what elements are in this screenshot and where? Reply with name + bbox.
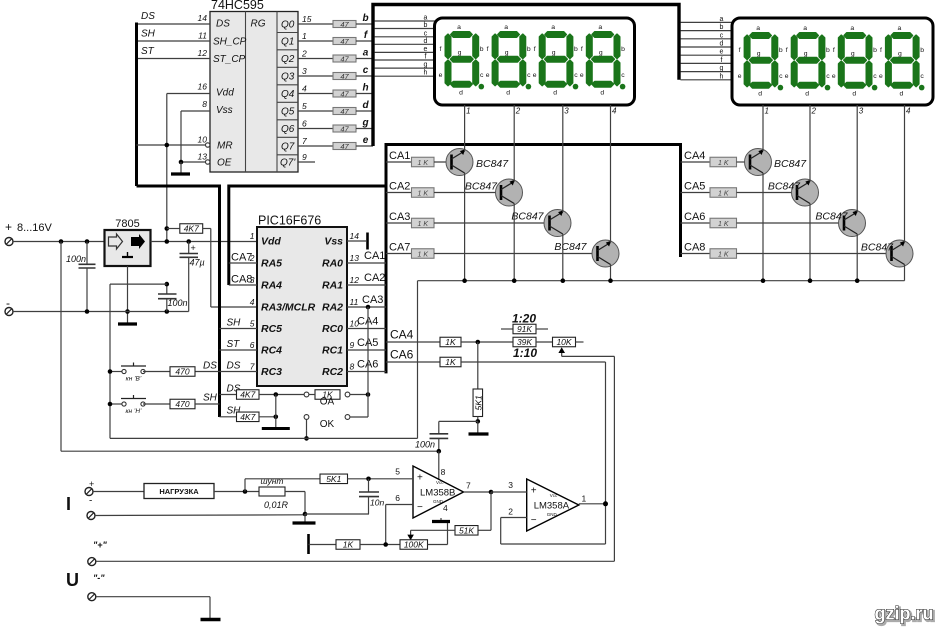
wire Q4 emitter down — [610, 265, 612, 281]
resistor R CA6 1K — [710, 218, 737, 228]
wire 4K7SH out — [259, 416, 276, 418]
label U — [66, 570, 79, 590]
svg-text:a: a — [504, 24, 508, 31]
wire DS to U2 pin7 — [195, 371, 257, 373]
wire U1 MR — [137, 144, 206, 146]
svg-text:b: b — [480, 46, 484, 53]
U2 left pin numbers — [249, 231, 255, 372]
wire U- to ground — [96, 597, 210, 618]
svg-text:1 K: 1 K — [718, 252, 729, 259]
net label DS 4K7 row — [227, 384, 241, 395]
svg-text:CA1: CA1 — [364, 250, 385, 262]
wire bus to RCA3 — [386, 222, 412, 224]
svg-text:LM358A: LM358A — [534, 501, 570, 512]
svg-text:5: 5 — [395, 467, 400, 477]
jumper OK left contact — [304, 415, 309, 420]
net label CA2 pin12 — [364, 272, 385, 284]
svg-text:d: d — [506, 90, 510, 97]
svg-text:ST: ST — [227, 339, 241, 350]
label Q2 BC847 — [465, 181, 498, 193]
wire I- to 10n — [305, 513, 369, 515]
svg-text:c: c — [621, 72, 625, 79]
wire display2 pin3 to Q7 collector — [856, 105, 858, 212]
transistor Q3 BC847 — [544, 210, 571, 237]
svg-text:2: 2 — [301, 49, 307, 59]
IC U2 title — [258, 214, 321, 228]
op-amp U4A LM358A — [527, 479, 579, 531]
IC U1 74HC595 body — [210, 12, 298, 173]
IC VR1 7805 body — [105, 230, 151, 266]
svg-text:d: d — [600, 90, 604, 97]
svg-text:g: g — [552, 50, 556, 57]
svg-text:100K: 100K — [404, 540, 424, 550]
resistor R CA8 1K — [710, 249, 737, 259]
svg-text:2: 2 — [508, 507, 513, 517]
U2 pin14 Vss stub — [347, 240, 366, 242]
svg-text:d: d — [362, 100, 369, 111]
wire bus to RCA1 — [386, 161, 412, 163]
svg-text:1:10: 1:10 — [513, 346, 537, 360]
resistor R2 47 — [333, 37, 356, 46]
svg-text:a: a — [457, 24, 461, 31]
svg-text:14: 14 — [198, 13, 208, 23]
wire out to 51K — [478, 492, 491, 530]
label U minus — [93, 573, 105, 583]
resistor R24 1K — [336, 540, 360, 550]
svg-text:14: 14 — [350, 231, 360, 241]
load box NAGRUZKA — [144, 484, 214, 499]
svg-text:RC2: RC2 — [322, 366, 343, 378]
svg-text:1 K: 1 K — [718, 221, 729, 228]
svg-text:1: 1 — [466, 107, 470, 116]
U3B pin6 label — [395, 493, 400, 503]
capacitor C1 100n — [66, 242, 96, 312]
svg-text:BC847: BC847 — [465, 181, 498, 193]
svg-text:BC847: BC847 — [815, 211, 848, 223]
resistor R5 47 — [333, 90, 356, 99]
wire display1 pin3 to Q3 collector — [562, 105, 564, 212]
svg-text:h: h — [424, 70, 428, 77]
svg-text:9: 9 — [302, 152, 307, 162]
svg-text:b: b — [362, 13, 368, 24]
wire 7805 gnd — [127, 266, 129, 324]
wire 1K to 100K — [360, 544, 400, 546]
svg-text:CA8: CA8 — [231, 274, 252, 286]
display DISP2 digit 3 — [832, 25, 877, 97]
svg-text:3: 3 — [859, 107, 864, 116]
svg-text:47: 47 — [340, 90, 349, 99]
svg-text:+: + — [5, 220, 12, 234]
U1 Q pin names — [280, 20, 296, 169]
svg-text:SH: SH — [227, 318, 242, 329]
svg-text:OE: OE — [217, 158, 232, 169]
terminal -V — [5, 308, 13, 316]
display DISP1 digit 3 — [533, 24, 578, 96]
trimmer 10K wiper arrow — [558, 347, 614, 561]
node OA-net on pin11 — [366, 305, 371, 310]
svg-text:e: e — [486, 72, 490, 79]
svg-text:DS: DS — [227, 361, 241, 372]
wire +V to 7805 — [13, 241, 105, 243]
node U3B out — [489, 490, 494, 495]
resistor R21 shunt 0.01R — [259, 487, 289, 510]
svg-text:GND: GND — [547, 512, 558, 517]
svg-text:e: e — [424, 46, 428, 53]
jumper OA left contact — [304, 392, 309, 397]
node OA vertical junction — [366, 392, 371, 397]
wire R to Q5 base — [737, 161, 753, 163]
wire display1 pin1 to Q1 collector — [464, 105, 466, 151]
svg-text:g: g — [804, 51, 808, 58]
node OK on +5V line — [304, 436, 309, 441]
svg-text:b: b — [873, 47, 877, 54]
svg-text:b: b — [527, 46, 531, 53]
wire 4K7 to MCLR — [203, 229, 257, 308]
wire R470H to DS bus — [195, 403, 220, 405]
svg-text:470: 470 — [175, 399, 189, 409]
svg-text:BC847: BC847 — [554, 241, 587, 253]
svg-text:e: e — [738, 73, 742, 80]
wire SH to U1 pin11 — [137, 40, 211, 42]
svg-text:CA5: CA5 — [684, 181, 705, 193]
svg-text:100n: 100n — [168, 298, 188, 308]
net label CA7 pin2 — [231, 252, 252, 264]
label Q1 BC847 — [476, 158, 509, 170]
display DISP2 body — [732, 18, 933, 105]
wire display2 pin4 to Q8 collector — [904, 105, 906, 243]
svg-text:Q7: Q7 — [281, 142, 295, 153]
svg-text:DS: DS — [216, 19, 230, 30]
U2 right pin numbers — [350, 231, 360, 372]
svg-text:Q5: Q5 — [281, 107, 295, 118]
wire emitter common rail — [418, 280, 905, 282]
wire bus to RCA8 — [681, 253, 711, 255]
ground I- — [293, 514, 316, 523]
label shunt — [260, 476, 283, 486]
label I plus — [89, 479, 94, 489]
svg-text:a: a — [756, 25, 760, 32]
svg-text:c: c — [826, 73, 830, 80]
net label CA1 — [389, 150, 410, 162]
svg-text:10K: 10K — [556, 337, 571, 347]
trimmer R25 100K — [400, 540, 428, 550]
label U plus — [93, 540, 108, 550]
display DISP2 digit 1 — [738, 25, 783, 97]
svg-text:74HC595: 74HC595 — [211, 0, 264, 12]
net label CA6 — [684, 211, 705, 223]
net label SH button row — [203, 393, 218, 404]
svg-text:4: 4 — [906, 107, 911, 116]
svg-text:RC4: RC4 — [261, 345, 282, 357]
label 7805 — [115, 218, 139, 230]
wire R15 to divider node — [461, 341, 513, 343]
svg-text:RC3: RC3 — [261, 366, 282, 378]
svg-text:gzip.ru: gzip.ru — [875, 604, 934, 624]
svg-text:OK: OK — [320, 419, 335, 430]
display1 pin 3 label — [564, 107, 569, 116]
svg-text:1K: 1K — [445, 337, 456, 347]
U1 OE inversion bubble — [206, 160, 210, 164]
svg-text:1 K: 1 K — [417, 252, 428, 259]
svg-text:Q4: Q4 — [281, 89, 295, 100]
wire shunt right elbow — [285, 492, 305, 515]
svg-text:a: a — [898, 25, 902, 32]
resistor R11 470 — [170, 399, 195, 409]
wire fan display2 a-h — [681, 16, 733, 80]
wire bus to RCA2 — [386, 192, 412, 194]
node +5V Vdd-vert — [165, 239, 170, 244]
net label CA3 — [389, 211, 410, 223]
wire raw +V left vertical — [60, 242, 62, 452]
svg-text:g: g — [458, 50, 462, 57]
net label CA6 pin8 — [357, 359, 378, 371]
wire U1 OE — [181, 161, 206, 163]
wire U1 Vdd vertical — [166, 94, 168, 242]
resistor R10 470 — [170, 367, 195, 377]
svg-text:Vss: Vss — [324, 236, 343, 248]
wire DS to U1 pin14 — [137, 23, 211, 25]
svg-text:−: − — [417, 502, 423, 513]
svg-text:a: a — [424, 15, 428, 22]
svg-text:g: g — [505, 50, 509, 57]
svg-text:7: 7 — [250, 362, 255, 372]
svg-text:g: g — [361, 118, 368, 129]
svg-text:47: 47 — [340, 72, 349, 81]
capacitor C5 10n — [359, 479, 384, 514]
wire U4A pin2 feedback — [501, 504, 606, 544]
U3B pin5 label — [395, 467, 400, 477]
svg-text:15: 15 — [302, 14, 312, 24]
wire U2 pin12 to CA bus — [347, 284, 386, 286]
resistor R CA4 1K — [710, 157, 737, 167]
wire 4K7 left stub — [167, 228, 180, 230]
wire bus to RCA7 — [386, 253, 412, 255]
svg-text:f: f — [425, 54, 427, 61]
net label DS left — [203, 361, 217, 372]
svg-text:ST: ST — [141, 46, 155, 57]
svg-text:2: 2 — [811, 107, 817, 116]
svg-text:RA1: RA1 — [322, 280, 343, 292]
svg-text:6: 6 — [250, 340, 255, 350]
svg-text:b: b — [424, 22, 428, 29]
transistor Q2 BC847 — [496, 179, 523, 206]
display DISP1 digit 1 — [439, 24, 484, 96]
segment net label e — [363, 135, 369, 146]
svg-text:6: 6 — [302, 119, 307, 129]
svg-text:10: 10 — [198, 135, 208, 145]
U4A pin3 label — [508, 480, 513, 490]
ground-bar 1K left — [307, 534, 310, 554]
label OA — [320, 397, 335, 408]
svg-text:CA7: CA7 — [389, 242, 410, 254]
wire 4K7DS out — [259, 394, 304, 396]
net label CA8 pin3 — [231, 274, 252, 286]
svg-text:3: 3 — [508, 480, 513, 490]
svg-text:шунт: шунт — [260, 476, 283, 486]
display DISP2 digit 2 — [785, 25, 830, 97]
wire U+ rail — [96, 560, 614, 562]
net label ST pin6 — [227, 339, 241, 350]
svg-text:BC847: BC847 — [768, 181, 801, 193]
wire CA8 to U2 pin3 — [229, 284, 257, 286]
segment net label h — [362, 83, 368, 94]
segment net label a — [363, 48, 369, 59]
display2 pin 1 label — [765, 107, 769, 116]
svg-text:c: c — [527, 72, 531, 79]
wire OK right to vertical — [350, 416, 368, 418]
wire 5K1-node to C4 — [439, 420, 478, 422]
node +in 10n — [366, 477, 371, 482]
wire button H to R470 — [143, 403, 170, 405]
wire Q8 emitter down — [904, 265, 906, 281]
wire U2 pin11 to CA bus — [347, 306, 386, 308]
U4A pin2 label — [508, 507, 513, 517]
svg-text:Q3: Q3 — [281, 72, 295, 83]
svg-text:d: d — [852, 91, 856, 98]
svg-text:51K: 51K — [459, 525, 474, 535]
resistor R3 47 — [333, 55, 356, 64]
node button H common — [108, 402, 113, 407]
net label CA8 — [684, 242, 705, 254]
svg-text:e: e — [785, 73, 789, 80]
wire CA6 tap — [386, 361, 440, 363]
op-amp U3B LM358B — [413, 466, 464, 518]
svg-text:16: 16 — [198, 82, 208, 92]
wire U2 pin9 to CA bus — [347, 349, 386, 351]
wire U1 Q1 stub — [298, 40, 333, 42]
node U4A out — [603, 501, 608, 506]
svg-text:d: d — [424, 38, 428, 45]
svg-text:RA2: RA2 — [322, 302, 343, 314]
wire display1 pin4 to Q4 collector — [610, 105, 612, 243]
resistor R20 5K1 vertical — [473, 342, 483, 421]
pushbutton SB2 kn H — [121, 395, 146, 415]
svg-text:f: f — [833, 47, 835, 54]
display DISP2 digit 4 — [879, 25, 924, 97]
svg-text:CA2: CA2 — [389, 181, 410, 193]
wire U1 Q0 stub — [298, 23, 333, 25]
7805 input arrow — [109, 234, 123, 249]
svg-text:c: c — [779, 73, 783, 80]
svg-text:47: 47 — [340, 20, 349, 29]
svg-text:47: 47 — [340, 107, 349, 116]
svg-text:BC847: BC847 — [476, 158, 509, 170]
wire +5V line A — [110, 437, 418, 439]
svg-text:2: 2 — [515, 107, 521, 116]
resistor R6 47 — [333, 107, 356, 116]
capacitor C4 100n opamp supply — [415, 421, 448, 452]
net label CA3 pin11 — [362, 294, 383, 306]
svg-text:1: 1 — [250, 231, 255, 241]
wire -V rail — [13, 311, 189, 313]
svg-text:d: d — [805, 91, 809, 98]
wire load to shunt — [214, 491, 259, 493]
svg-text:1K: 1K — [343, 540, 354, 550]
wire bus to 4K7SH — [220, 416, 237, 418]
svg-text:4K7: 4K7 — [184, 224, 199, 234]
svg-text:7805: 7805 — [115, 218, 139, 230]
resistor R13 1K — [315, 390, 340, 400]
wire bus to 4K7DS — [220, 394, 237, 396]
svg-text:U: U — [66, 570, 79, 590]
svg-text:ST_CP: ST_CP — [213, 54, 246, 65]
IC U1 74HC595 title — [211, 0, 264, 12]
svg-text:5K1: 5K1 — [326, 474, 341, 484]
svg-text:1 K: 1 K — [417, 221, 428, 228]
node 5K1 bottom — [476, 419, 481, 424]
label Q8 BC847 — [861, 242, 894, 254]
node -V 100n — [85, 309, 90, 314]
svg-text:1K: 1K — [445, 357, 456, 367]
svg-text:e: e — [533, 72, 537, 79]
wire U1 Q2 stub — [298, 58, 333, 60]
svg-text:Q1: Q1 — [281, 37, 294, 48]
wire R to Q2 base — [434, 192, 503, 194]
svg-text:e: e — [720, 49, 724, 56]
bus CA top horizontal — [386, 143, 681, 146]
svg-text:11: 11 — [350, 297, 359, 307]
svg-text:кн ’Н’: кн ’Н’ — [125, 408, 142, 415]
transistor Q1 BC847 — [446, 149, 473, 176]
node shunt left — [243, 489, 248, 494]
svg-text:Q6: Q6 — [281, 124, 295, 135]
svg-text:e: e — [439, 72, 443, 79]
svg-text:CA2: CA2 — [364, 272, 385, 284]
wire U3B pin3 link — [491, 491, 527, 493]
svg-text:Vсс: Vсс — [436, 480, 444, 485]
wire emitter rail down — [417, 281, 419, 439]
ground U1 Vss/OE — [171, 162, 190, 174]
resistor R22 5K1 — [320, 474, 348, 484]
svg-text:1: 1 — [582, 494, 587, 504]
svg-text:13: 13 — [350, 253, 360, 263]
resistor R23 51K — [455, 525, 478, 535]
svg-text:5K1: 5K1 — [474, 395, 484, 410]
svg-text:0,01R: 0,01R — [264, 500, 289, 510]
wire R7 to segment bus — [356, 128, 373, 130]
wire I- rail — [95, 514, 305, 517]
svg-text:100n: 100n — [66, 254, 86, 264]
svg-text:RG: RG — [251, 19, 266, 30]
wire 4K7 junction vertical — [275, 395, 277, 428]
node 4K7DS junction — [274, 392, 279, 397]
net label DS — [141, 11, 155, 22]
net label CA4 tap — [390, 328, 414, 342]
svg-text:c: c — [480, 72, 484, 79]
svg-text:PIC16F676: PIC16F676 — [258, 214, 321, 228]
svg-text:1 K: 1 K — [718, 160, 729, 167]
IC U2 PIC16F676 body — [257, 227, 347, 386]
svg-text:47: 47 — [340, 142, 349, 151]
net label DS pin7 — [227, 361, 241, 372]
svg-text:BC847: BC847 — [774, 158, 807, 170]
svg-text:1 K: 1 K — [417, 191, 428, 198]
svg-text:9: 9 — [350, 340, 355, 350]
svg-text:+: + — [191, 243, 196, 253]
label OK — [320, 419, 335, 430]
net label CA7 — [389, 242, 410, 254]
svg-text:RA5: RA5 — [261, 258, 282, 270]
wire U1 Q7 stub — [298, 145, 333, 147]
svg-text:47: 47 — [340, 55, 349, 64]
svg-text:47: 47 — [340, 125, 349, 134]
terminal U+ — [88, 558, 96, 566]
capacitor C2 47u — [180, 242, 205, 312]
svg-text:10n: 10n — [370, 498, 384, 508]
resistor R12 4K7 — [237, 390, 260, 400]
display2 pin 3 label — [859, 107, 864, 116]
display1 pin 4 label — [612, 107, 617, 116]
